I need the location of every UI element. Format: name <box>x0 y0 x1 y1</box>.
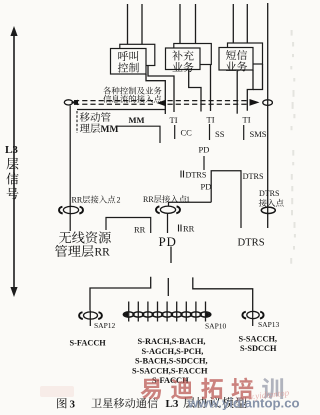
wire stub box1 a <box>127 4 129 44</box>
caption 层协议模型 <box>183 397 194 408</box>
arrow left small <box>71 100 78 106</box>
bottom bracket left <box>90 277 151 311</box>
svg-text:SAP13: SAP13 <box>258 320 280 329</box>
wire stub box2 a <box>179 4 181 44</box>
node SAP12 <box>84 312 98 319</box>
node SAP10 group ellipses <box>123 312 134 317</box>
svg-text:S-SDCCH: S-SDCCH <box>240 344 277 353</box>
label 补充业务 <box>172 50 182 60</box>
svg-text:RR: RR <box>143 195 154 204</box>
MM layer step boundary <box>116 126 160 143</box>
svg-text:MM: MM <box>129 115 145 125</box>
wire stub box3 b <box>246 4 248 43</box>
svg-text:DTRS: DTRS <box>243 172 264 181</box>
svg-text:3: 3 <box>70 399 76 411</box>
label 各种控制及业务 <box>103 87 111 95</box>
RR layer step boundary <box>106 218 151 234</box>
wire below TI3 <box>243 125 245 140</box>
svg-text:S-AGCH,S-PCH,: S-AGCH,S-PCH, <box>142 347 204 356</box>
svg-text:TI: TI <box>207 115 215 125</box>
caption 图3 <box>57 398 66 408</box>
svg-text:TI: TI <box>243 115 251 125</box>
block 短信业务 front <box>219 48 253 71</box>
svg-text:DTRS: DTRS <box>186 171 207 180</box>
svg-text:SAP10: SAP10 <box>205 322 227 331</box>
svg-text:DTRS: DTRS <box>238 238 265 249</box>
wire to RR AP1 <box>169 202 212 206</box>
wire box2 to TI2 <box>210 65 212 112</box>
node RR access point 1 <box>160 206 175 213</box>
svg-text:TI: TI <box>170 115 178 125</box>
node access point right <box>263 100 273 106</box>
svg-text:S-SACCH,: S-SACCH, <box>239 335 278 344</box>
label 移动管理层MM <box>80 112 90 122</box>
svg-text:CC: CC <box>181 128 193 138</box>
label 管理层RR <box>55 245 67 257</box>
wire below TI1 <box>174 125 176 139</box>
svg-text:S-BACH,S-SDCCH,: S-BACH,S-SDCCH, <box>135 357 208 366</box>
arrow right <box>250 99 260 106</box>
wire box3 stub <box>236 70 238 114</box>
label 信息流的接入点 <box>103 95 111 103</box>
MM layer left edge <box>76 111 78 133</box>
wire box2 stub <box>189 70 201 112</box>
caption 卫星移动通信 <box>92 398 102 407</box>
wire box3 to TI3 <box>247 70 253 111</box>
wire PD column upper <box>170 247 172 264</box>
wire SAP12 drop <box>89 311 91 327</box>
svg-text:PD: PD <box>159 234 177 249</box>
wire below TI2 <box>209 124 211 140</box>
svg-text:SMS: SMS <box>250 129 267 139</box>
label DTRS bars <box>180 171 182 178</box>
svg-text:1: 1 <box>186 195 190 204</box>
MM layer top boundary <box>77 109 166 111</box>
node access point left <box>64 100 72 105</box>
label 接入点 right <box>259 199 267 207</box>
bottom bracket right <box>193 277 253 310</box>
svg-text:L3: L3 <box>5 144 18 156</box>
block 补充业务 back <box>174 44 212 65</box>
wire PD down <box>203 156 205 170</box>
svg-text:RR: RR <box>183 224 195 234</box>
label RR bars <box>178 225 180 232</box>
dashed access line upper <box>74 100 155 102</box>
block 呼叫控制 back <box>120 44 155 65</box>
wire stub box3 a <box>232 4 234 43</box>
arrow comb left <box>123 312 129 317</box>
svg-text:PD: PD <box>201 182 212 192</box>
wire SAP13 drop <box>252 311 254 327</box>
wire box3 back drop <box>253 64 263 90</box>
dashed access line lower <box>74 103 155 105</box>
svg-text:MM: MM <box>101 125 119 135</box>
svg-text:DTRS: DTRS <box>259 189 279 198</box>
label 短信业务 <box>226 50 236 60</box>
svg-text:SAP12: SAP12 <box>94 321 116 330</box>
vertical bus line right <box>267 3 269 228</box>
arrow mid left <box>157 100 167 107</box>
block 补充业务 front <box>166 48 201 70</box>
wire stub box1 b <box>141 4 143 44</box>
svg-text:L3: L3 <box>166 398 179 410</box>
L3 signal range arrow <box>13 33 15 290</box>
label 呼叫控制 <box>118 51 128 61</box>
block 呼叫控制 front <box>111 49 147 75</box>
wire below RR AP1 <box>167 214 169 233</box>
wire DTRS branch <box>211 171 241 228</box>
svg-text:PD: PD <box>199 145 210 155</box>
svg-text:S-RACH,S-BACH,: S-RACH,S-BACH, <box>138 337 206 346</box>
node SAP13 <box>247 311 259 318</box>
node RR access point 2 <box>63 206 78 213</box>
faint pink bleed <box>40 386 74 397</box>
wire PD column lower <box>167 278 169 296</box>
svg-text:RR: RR <box>134 225 146 235</box>
label 无线资源 <box>59 232 71 244</box>
node SAP10 group ticks <box>128 302 130 322</box>
block 短信业务 back <box>228 43 263 64</box>
svg-text:2: 2 <box>117 196 121 205</box>
svg-text:S-SACCH,S-FACCH: S-SACCH,S-FACCH <box>132 366 208 375</box>
svg-text:S-FACCH: S-FACCH <box>70 339 107 348</box>
page bleed marks <box>291 30 293 36</box>
arrow comb right <box>206 312 212 317</box>
svg-text:RR: RR <box>72 196 83 205</box>
wire RR column <box>69 106 71 232</box>
wire box1 to TI1 <box>148 66 174 113</box>
svg-text:SS: SS <box>215 129 225 139</box>
wire stub box2 b <box>195 4 197 44</box>
svg-text:RR: RR <box>95 247 111 259</box>
wire box1 stub <box>146 74 165 114</box>
node DTRS access point <box>261 207 275 213</box>
watermark 易迪拓培训 <box>140 379 161 400</box>
